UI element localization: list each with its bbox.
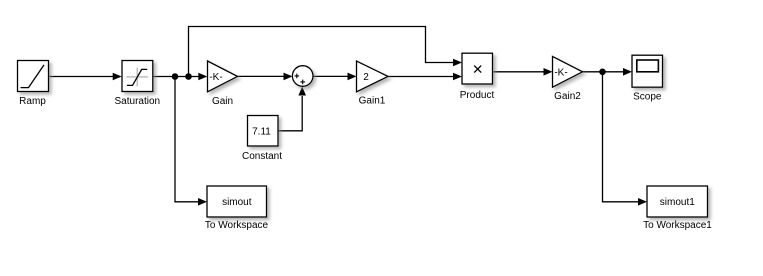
wire Product to Gain2 <box>493 71 546 73</box>
node branch to simout <box>172 73 179 80</box>
block Saturation <box>122 61 153 92</box>
arrowhead into Gain1 <box>348 73 357 81</box>
block Scope <box>632 55 663 87</box>
arrowhead into Sum bottom <box>298 87 306 96</box>
svg-text:To Workspace1: To Workspace1 <box>643 220 712 231</box>
wire Constant to Sum <box>278 96 302 131</box>
svg-text:simout: simout <box>222 197 252 208</box>
arrowhead into Saturation <box>113 73 122 81</box>
block simout1 (To Workspace1) <box>647 186 708 217</box>
wire branch down to simout1 <box>603 72 640 202</box>
Saturation curve <box>127 69 147 85</box>
Scope screen <box>637 60 659 72</box>
plus sign left input <box>295 74 300 79</box>
wire Gain2 to Scope <box>583 71 625 73</box>
block Gain1 (triangle) <box>357 61 389 92</box>
wire feedback up and over to Product <box>189 27 455 77</box>
svg-text:Saturation: Saturation <box>115 96 161 107</box>
svg-text:Constant: Constant <box>242 151 282 162</box>
arrowhead into Gain <box>198 73 207 81</box>
block Sum (circle) <box>292 66 313 87</box>
node branch to feedback <box>185 73 192 80</box>
svg-text:2: 2 <box>363 72 369 83</box>
Product x symbol <box>474 66 481 73</box>
block Gain (triangle) <box>208 61 238 92</box>
wire Saturation to Gain <box>153 76 200 78</box>
arrowhead into Product top input <box>453 59 462 67</box>
Saturation axes <box>126 76 147 78</box>
svg-text:Gain2: Gain2 <box>554 91 581 102</box>
arrowhead into Gain2 <box>544 68 553 76</box>
arrowhead into simout <box>198 198 207 206</box>
svg-text:7.11: 7.11 <box>252 126 271 137</box>
wire Gain1 to Product <box>388 76 455 78</box>
svg-text:-K-: -K- <box>209 72 222 83</box>
arrowhead into Sum left <box>284 73 293 81</box>
arrowhead into Scope <box>623 68 632 76</box>
svg-text:Gain: Gain <box>212 96 233 107</box>
svg-text:To Workspace: To Workspace <box>205 220 269 231</box>
svg-text:Scope: Scope <box>633 91 662 102</box>
svg-text:simout1: simout1 <box>660 197 695 208</box>
wire Ramp to Saturation <box>49 76 115 78</box>
svg-text:-K-: -K- <box>554 67 567 78</box>
wire Gain to Sum <box>238 75 286 77</box>
svg-text:Ramp: Ramp <box>19 96 46 107</box>
block Product <box>462 53 493 84</box>
block Ramp <box>18 61 49 92</box>
Ramp icon <box>21 65 45 88</box>
svg-text:Gain1: Gain1 <box>359 95 386 106</box>
block Constant <box>248 116 279 147</box>
arrowhead into Product bottom input <box>453 73 462 81</box>
wire Sum to Gain1 <box>313 75 349 77</box>
svg-text:Product: Product <box>460 90 495 101</box>
block simout (To Workspace) <box>207 186 267 217</box>
wire branch down to simout <box>175 77 200 202</box>
node branch to simout1 <box>599 69 606 76</box>
arrowhead into simout1 <box>638 198 647 206</box>
block Gain2 (triangle) <box>553 56 583 87</box>
plus sign bottom input <box>300 80 305 85</box>
